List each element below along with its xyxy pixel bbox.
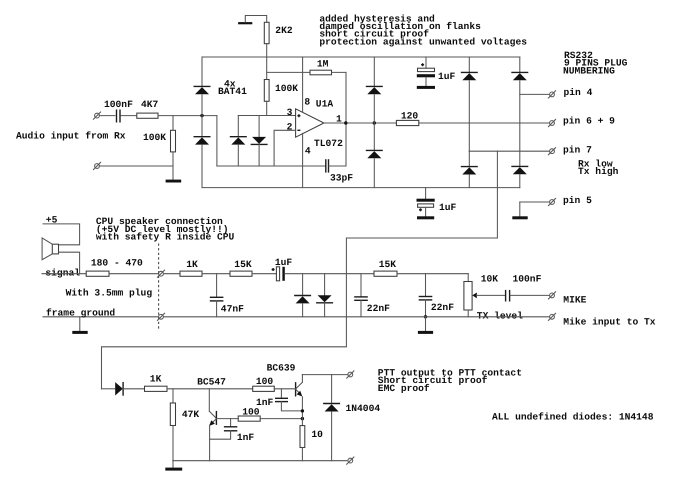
svg-text:BC639: BC639	[267, 363, 296, 374]
svg-text:10K: 10K	[481, 274, 499, 285]
note CPU speaker	[96, 216, 235, 242]
node +5 supply	[43, 215, 80, 245]
capacitor C1 100nF	[104, 99, 133, 123]
diode D11	[294, 274, 311, 317]
svg-text:with safety R inside CPU: with safety R inside CPU	[96, 231, 235, 242]
svg-text:TX level: TX level	[477, 310, 523, 321]
svg-text:MIKE: MIKE	[563, 294, 586, 305]
capacitor 22nF	[354, 274, 390, 317]
wire bottom rail PTT	[173, 460, 347, 462]
resistor 1K 2	[145, 373, 168, 391]
transistor Q1 BC547	[197, 376, 226, 460]
diode D12	[316, 274, 333, 317]
diode 1N4004	[323, 375, 380, 461]
svg-text:BC547: BC547	[197, 376, 226, 387]
svg-text:100nF: 100nF	[513, 274, 542, 285]
wire	[109, 273, 158, 275]
svg-text:3: 3	[287, 107, 293, 118]
svg-text:BAT41: BAT41	[218, 86, 247, 97]
connector PTT gnd	[347, 457, 354, 464]
plug boundary	[158, 244, 160, 331]
wire PTT out	[302, 374, 347, 376]
diode D2 BAT41	[194, 137, 211, 145]
svg-text:1K: 1K	[186, 259, 198, 270]
resistor 1K	[180, 259, 202, 277]
svg-text:100nF: 100nF	[104, 99, 133, 110]
svg-text:100: 100	[256, 376, 274, 387]
svg-text:1M: 1M	[317, 59, 329, 70]
wire pin8	[302, 57, 304, 112]
connector pin 7	[548, 145, 592, 156]
connector pin 5	[520, 195, 592, 206]
resistor 47K	[170, 389, 199, 461]
ground	[418, 317, 433, 334]
wire	[397, 273, 468, 275]
connector mike input	[548, 313, 655, 327]
svg-text:protection against unwanted vo: protection against unwanted voltages	[319, 36, 527, 47]
svg-text:NUMBERING: NUMBERING	[563, 65, 615, 76]
wire frame ground	[43, 316, 158, 318]
diode D7	[461, 57, 478, 151]
svg-text:8: 8	[304, 97, 310, 108]
resistor 120	[396, 111, 418, 126]
wire	[285, 273, 374, 275]
wire pin4 net	[520, 93, 549, 95]
svg-text:100: 100	[242, 407, 260, 418]
svg-text:pin 6 + 9: pin 6 + 9	[563, 116, 615, 127]
svg-text:100K: 100K	[143, 132, 166, 143]
wire	[260, 418, 302, 420]
wire	[252, 273, 276, 275]
svg-text:1nF: 1nF	[237, 432, 255, 443]
svg-text:180 - 470: 180 - 470	[91, 257, 143, 268]
wire top rail	[202, 56, 520, 58]
connector PTT out	[347, 371, 354, 378]
capacitor 1uF coupling	[272, 257, 293, 281]
potentiometer 10K	[464, 274, 505, 317]
diode D4 BAT41	[251, 116, 268, 167]
svg-text:ALL undefined diodes: 1N4148: ALL undefined diodes: 1N4148	[492, 411, 654, 422]
wire output	[324, 122, 397, 124]
connector plug tip	[157, 270, 164, 277]
node	[301, 409, 304, 412]
ground pin5	[512, 202, 527, 219]
ground frame	[72, 317, 87, 334]
svg-text:4K7: 4K7	[141, 99, 159, 110]
svg-text:33pF: 33pF	[330, 173, 353, 184]
resistor 1M	[267, 59, 346, 75]
note PTT	[378, 367, 522, 393]
svg-text:frame ground: frame ground	[46, 308, 115, 319]
wire	[59, 252, 80, 274]
capacitor 33pF	[326, 159, 353, 183]
node	[301, 417, 304, 420]
ground 47K	[165, 461, 182, 471]
svg-text:pin 5: pin 5	[563, 195, 592, 206]
svg-text:TL072: TL072	[314, 138, 343, 149]
wire	[274, 388, 295, 390]
diode D1 BAT41	[194, 86, 211, 94]
capacitor 1nF Q1	[210, 419, 255, 443]
wire signal	[42, 273, 86, 275]
op-amp U1A TL072	[287, 97, 343, 157]
connector pin 6+9	[548, 116, 615, 127]
supply bar	[238, 16, 267, 25]
resistor R2 100K input	[143, 116, 176, 180]
wire frame ground right	[164, 316, 548, 318]
wire pin7 net	[469, 150, 549, 152]
svg-text:22nF: 22nF	[431, 302, 454, 313]
svg-text:1nF: 1nF	[256, 397, 274, 408]
svg-text:1uF: 1uF	[438, 71, 456, 82]
label RS232	[563, 50, 628, 76]
svg-text:47K: 47K	[182, 409, 200, 420]
svg-text:1K: 1K	[150, 373, 162, 384]
ground	[417, 216, 434, 219]
wire	[216, 116, 218, 166]
node output	[344, 121, 347, 124]
svg-text:U1A: U1A	[316, 99, 334, 110]
svg-text:15K: 15K	[234, 259, 252, 270]
svg-text:Tx high: Tx high	[578, 166, 619, 177]
svg-text:With 3.5mm plug: With 3.5mm plug	[66, 288, 153, 299]
connector pin 4	[548, 87, 592, 98]
resistor 4K7	[137, 99, 159, 118]
wire	[201, 145, 203, 187]
wire feedback	[345, 72, 347, 166]
wire pin4	[302, 133, 304, 187]
connector J1 audio in gnd	[93, 162, 100, 169]
svg-text:2: 2	[287, 122, 293, 133]
svg-text:Mike input to Tx: Mike input to Tx	[563, 316, 655, 327]
capacitor 1nF Q2	[256, 389, 302, 411]
diode D13	[102, 382, 145, 396]
resistor 180-470	[86, 257, 143, 276]
wire	[99, 115, 115, 117]
svg-text:EMC proof: EMC proof	[378, 383, 430, 394]
svg-text:pin 4: pin 4	[564, 87, 593, 98]
wire	[158, 115, 217, 117]
capacitor 1uF output	[417, 188, 457, 217]
svg-text:4: 4	[305, 145, 311, 156]
wire base Q1	[216, 418, 238, 420]
wire	[419, 122, 549, 124]
connector MIKE	[548, 292, 586, 306]
node	[373, 121, 376, 124]
svg-text:2K2: 2K2	[275, 25, 293, 36]
svg-text:47nF: 47nF	[221, 304, 244, 315]
resistor 100 collector	[253, 376, 275, 391]
transistor Q2 BC639	[267, 363, 303, 426]
wire	[99, 165, 173, 167]
wire	[164, 273, 180, 275]
connector J1 audio in hot	[93, 112, 100, 119]
wire PTT routing	[102, 151, 498, 389]
note hysteresis	[319, 13, 527, 47]
capacitor 47nF	[210, 274, 244, 317]
capacitor 22nF 2	[419, 274, 454, 317]
svg-text:15K: 15K	[379, 259, 397, 270]
resistor 2K2	[264, 22, 293, 43]
wire	[201, 57, 203, 86]
svg-text:10: 10	[311, 429, 323, 440]
svg-text:22nF: 22nF	[367, 303, 390, 314]
node	[424, 315, 427, 318]
label 4x BAT41	[218, 79, 247, 98]
speaker LS1	[42, 238, 58, 260]
svg-text:Audio input from Rx: Audio input from Rx	[16, 131, 126, 142]
label Rx low Tx high	[578, 158, 619, 177]
resistor 15K	[230, 259, 252, 277]
wire	[202, 273, 230, 275]
resistor 15K 2	[374, 259, 397, 277]
wire	[266, 44, 268, 57]
ground	[417, 86, 435, 89]
ground	[166, 180, 182, 183]
wire	[201, 95, 203, 137]
capacitor 100nF 2	[506, 274, 549, 302]
svg-text:pin 7: pin 7	[563, 145, 592, 156]
connector plug sleeve	[157, 313, 164, 320]
svg-text:1N4004: 1N4004	[346, 403, 381, 414]
wire pin3 net	[238, 115, 295, 117]
diode D6	[366, 123, 383, 188]
wire pin2	[274, 130, 296, 166]
resistor 100K divider	[264, 57, 298, 116]
wire bottom rail	[202, 187, 520, 189]
resistor 10	[300, 426, 323, 461]
svg-text:1uF: 1uF	[275, 257, 293, 268]
wire	[167, 388, 253, 390]
resistor 100 base Q1	[238, 407, 260, 422]
diode D3 BAT41	[230, 116, 247, 167]
node input junction	[200, 114, 203, 117]
svg-text:100K: 100K	[275, 83, 298, 94]
diode D9	[511, 57, 528, 166]
svg-text:120: 120	[401, 111, 419, 122]
svg-text:signal: signal	[45, 267, 80, 278]
wire	[121, 115, 137, 117]
diode D10	[511, 166, 528, 187]
svg-text:1uF: 1uF	[439, 202, 457, 213]
diode D5	[366, 57, 383, 123]
diode D8	[461, 151, 478, 187]
wire clamp bottom	[217, 165, 325, 167]
capacitor 1uF rail	[417, 57, 456, 86]
